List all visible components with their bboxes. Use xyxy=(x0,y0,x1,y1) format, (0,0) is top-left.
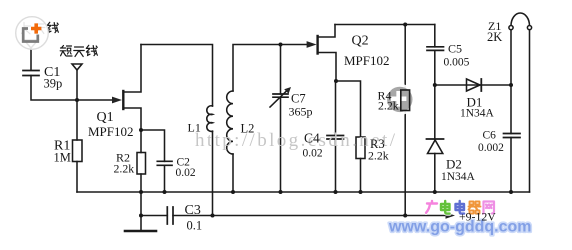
svg-text:0.1: 0.1 xyxy=(187,219,203,233)
svg-text:C4: C4 xyxy=(304,131,320,146)
svg-text:C3: C3 xyxy=(185,203,201,218)
svg-text:0.02: 0.02 xyxy=(176,167,196,179)
svg-text:L1: L1 xyxy=(188,121,201,135)
svg-text:2.2k: 2.2k xyxy=(378,99,399,113)
svg-text:D2: D2 xyxy=(446,157,462,172)
svg-text:1N34A: 1N34A xyxy=(460,108,495,120)
svg-text:39p: 39p xyxy=(44,77,63,91)
svg-text:MPF102: MPF102 xyxy=(88,124,134,139)
svg-text:1N34A: 1N34A xyxy=(441,171,476,183)
svg-text:C6: C6 xyxy=(483,130,497,142)
svg-text:L2: L2 xyxy=(241,122,255,136)
svg-text:2K: 2K xyxy=(487,30,502,44)
svg-text:+9-12V: +9-12V xyxy=(459,210,496,224)
svg-text:0.02: 0.02 xyxy=(303,148,323,160)
svg-text:C7: C7 xyxy=(291,92,306,106)
svg-text:Q1: Q1 xyxy=(97,110,114,125)
svg-text:C5: C5 xyxy=(448,41,462,55)
svg-text:0.002: 0.002 xyxy=(478,142,504,154)
svg-text:1M: 1M xyxy=(54,151,71,165)
svg-text:MPF102: MPF102 xyxy=(344,53,390,68)
svg-text:Q2: Q2 xyxy=(352,34,369,49)
svg-text:0.005: 0.005 xyxy=(444,57,470,69)
svg-text:365p: 365p xyxy=(289,105,313,119)
svg-text:2.2k: 2.2k xyxy=(114,162,135,176)
svg-text:2.2k: 2.2k xyxy=(368,149,389,163)
